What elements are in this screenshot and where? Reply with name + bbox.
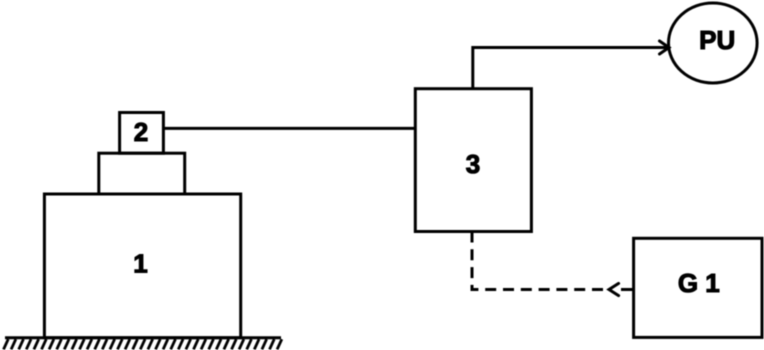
svg-text:G 1: G 1 [678, 268, 720, 298]
svg-text:PU: PU [699, 25, 735, 55]
svg-text:1: 1 [133, 248, 147, 278]
svg-text:2: 2 [134, 117, 148, 147]
svg-text:3: 3 [466, 149, 480, 179]
